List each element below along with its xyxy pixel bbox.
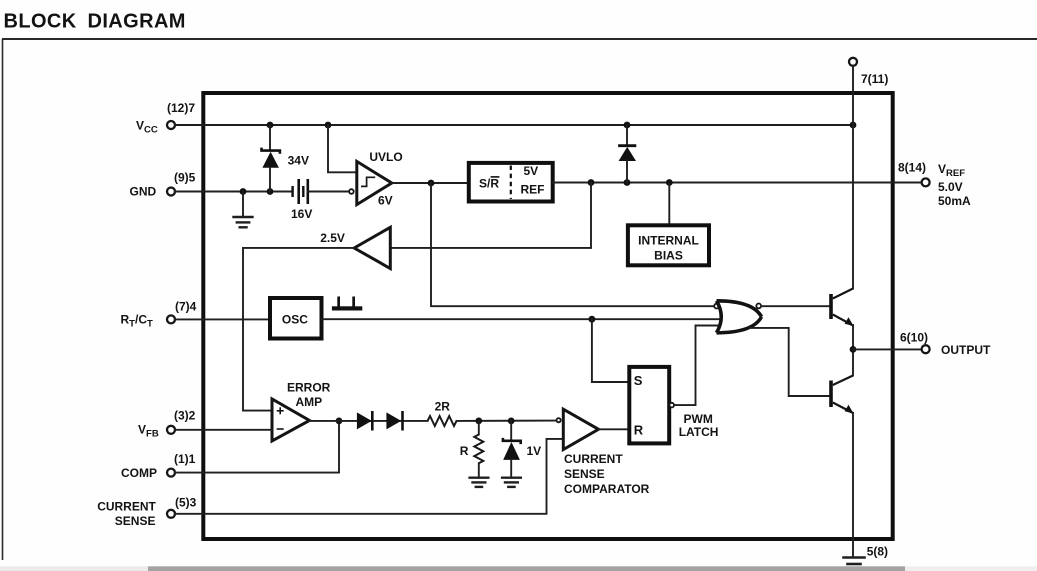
block S/R 5V REF U2 [469, 163, 553, 202]
wire GND to battery [175, 191, 292, 193]
gate NOR [714, 301, 761, 333]
pin Vcc terminal [167, 121, 175, 129]
svg-text:(9)5: (9)5 [174, 171, 196, 185]
node Vcc/UVLO [325, 122, 332, 129]
pin COMP label [121, 452, 196, 480]
diode D1 Vref to Vcc [618, 125, 636, 183]
block OSC [270, 298, 322, 339]
pin 7(11) terminal [849, 58, 888, 86]
wire 2R to comparator [457, 420, 557, 422]
svg-text:DIAGRAM: DIAGRAM [88, 11, 186, 33]
wire COMP to error amp output [175, 421, 339, 473]
wire VFB to error amp [175, 429, 272, 431]
resistor R [460, 421, 484, 478]
block INTERNAL BIAS [628, 183, 709, 266]
transistor Q2 [829, 349, 853, 413]
node divider zener [508, 418, 515, 425]
svg-text:COMP: COMP [121, 466, 157, 480]
wire error amp output [310, 420, 428, 422]
svg-text:ERROR: ERROR [287, 381, 331, 395]
ground symbol G4 [844, 558, 865, 565]
svg-text:S: S [634, 373, 643, 388]
svg-text:S/R: S/R [479, 176, 499, 190]
wire latch to NOR input [674, 326, 720, 406]
svg-text:(7)4: (7)4 [175, 300, 197, 314]
node UVLO output [428, 180, 435, 187]
svg-text:7(11): 7(11) [861, 72, 888, 86]
wire UVLO to NOR top input [431, 183, 715, 306]
pin Vcc label [136, 101, 195, 136]
svg-text:SENSE: SENSE [564, 467, 605, 481]
svg-text:VCC: VCC [136, 119, 158, 136]
wire OSC output [322, 318, 720, 320]
zener diode 34V [262, 125, 309, 192]
svg-text:BLOCK: BLOCK [4, 11, 77, 33]
pin CURRENT SENSE label [97, 496, 196, 529]
ground symbol G3 [502, 478, 521, 487]
svg-text:2R: 2R [435, 400, 451, 414]
diode D3 [386, 411, 402, 431]
svg-text:R: R [460, 444, 469, 458]
title BLOCK DIAGRAM [4, 11, 186, 33]
pin VFB terminal [167, 426, 175, 434]
svg-text:1V: 1V [527, 444, 542, 458]
svg-text:INTERNAL: INTERNAL [638, 233, 699, 247]
pin RT/CT terminal [167, 315, 175, 323]
wire Vcc rail [175, 124, 853, 126]
buffer 2.5V [320, 227, 390, 268]
wire current sense [175, 439, 564, 514]
bottom page band [0, 566, 1037, 571]
svg-text:SENSE: SENSE [115, 514, 156, 528]
pin COMP terminal [167, 469, 175, 477]
svg-text:5V: 5V [524, 164, 539, 178]
svg-text:8(14): 8(14) [898, 160, 926, 174]
svg-text:R: R [634, 423, 644, 438]
svg-text:RT/CT: RT/CT [121, 312, 153, 329]
svg-text:6(10): 6(10) [900, 330, 928, 344]
ground symbol G2 [470, 478, 489, 487]
svg-text:CURRENT: CURRENT [564, 452, 623, 466]
pin CURRENT SENSE terminal [167, 510, 175, 518]
battery 16V [291, 179, 312, 221]
ground symbol G1 [234, 192, 253, 228]
diode D2 [357, 411, 372, 431]
wire RT/CT to OSC [175, 318, 270, 320]
pin OUTPUT terminal [900, 330, 991, 357]
svg-text:50mA: 50mA [938, 194, 971, 208]
svg-text:5.0V: 5.0V [938, 180, 963, 194]
svg-text:2.5V: 2.5V [320, 231, 345, 245]
node Vcc/collector [850, 122, 857, 129]
svg-text:6V: 6V [378, 194, 393, 208]
node Vref/bias [666, 179, 673, 186]
svg-text:VFB: VFB [138, 423, 159, 440]
zener diode 1V [503, 421, 541, 478]
svg-text:34V: 34V [288, 153, 309, 167]
outer frame left rule [2, 39, 4, 560]
svg-text:UVLO: UVLO [369, 150, 402, 164]
svg-text:(12)7: (12)7 [167, 101, 195, 115]
node Vref/diode [624, 179, 631, 186]
pin GND terminal [167, 188, 175, 196]
svg-text:AMP: AMP [296, 395, 323, 409]
svg-text:PWM: PWM [684, 412, 713, 426]
wire OSC to latch S [592, 319, 629, 382]
wire NOR to lower base [750, 328, 830, 396]
svg-text:(5)3: (5)3 [175, 496, 197, 510]
pin RT/CT label [121, 300, 197, 330]
wire output [853, 348, 922, 350]
wire emitter to ground [852, 413, 854, 558]
resistor 2R [428, 400, 457, 426]
clock waveform symbol [332, 297, 362, 311]
op-amp error amp [272, 381, 331, 441]
svg-text:OUTPUT: OUTPUT [941, 343, 991, 357]
transistor Q1 [829, 289, 853, 350]
svg-text:OSC: OSC [282, 312, 308, 326]
comparator current sense [557, 409, 650, 496]
node Vcc/diode [624, 122, 631, 129]
node OSC/latch S [589, 316, 596, 323]
wire Vcc to UVLO input [328, 125, 357, 172]
wire battery to UVLO [308, 191, 349, 193]
wire UVLO output [392, 182, 469, 184]
wire 2.5V to error amp [243, 248, 354, 411]
svg-text:(3)2: (3)2 [174, 409, 196, 423]
node error amp output [336, 418, 343, 425]
svg-text:CURRENT: CURRENT [97, 500, 156, 514]
svg-text:GND: GND [130, 185, 157, 199]
wire NOR to upper base [761, 305, 829, 307]
svg-text:REF: REF [521, 183, 545, 197]
comparator UVLO [349, 150, 403, 208]
svg-text:LATCH: LATCH [679, 425, 719, 439]
latch PWM [629, 367, 718, 444]
node GND/zener [267, 188, 274, 195]
svg-text:COMPARATOR: COMPARATOR [564, 482, 650, 496]
wire comparator to latch R [599, 428, 630, 430]
wire Vref to 2.5V buffer [390, 183, 591, 248]
outer frame top rule [2, 38, 1037, 40]
node GND/earth [240, 188, 247, 195]
svg-text:(1)1: (1)1 [174, 452, 196, 466]
svg-text:BIAS: BIAS [654, 249, 683, 263]
pin VFB label [138, 409, 196, 440]
svg-text:16V: 16V [291, 207, 312, 221]
node Vref/2.5V [588, 179, 595, 186]
wire Vref rail [553, 182, 922, 184]
wire collector rail [852, 66, 854, 289]
svg-text:5(8): 5(8) [867, 545, 888, 559]
IC boundary box [203, 93, 892, 539]
pin Vref terminal [898, 160, 971, 208]
node Vcc/zener [267, 122, 274, 129]
pin GND label [130, 171, 196, 199]
svg-text:VREF: VREF [938, 162, 965, 179]
node output [850, 346, 857, 353]
node divider R [475, 418, 482, 425]
